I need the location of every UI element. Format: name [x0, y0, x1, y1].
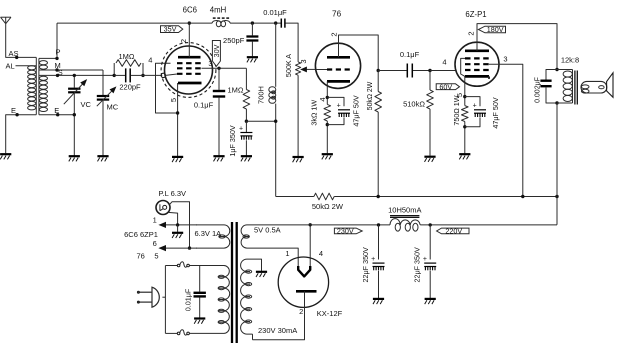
KX-12F plate wire pin 2	[253, 291, 305, 339]
speaker	[581, 73, 613, 98]
6Z-P1 screen wire pin 3	[489, 55, 523, 197]
capacitor 0.1uF coupling	[378, 50, 430, 78]
svg-text:P: P	[56, 48, 61, 57]
svg-text:4mH: 4mH	[210, 6, 226, 15]
tube V2 76 triode	[315, 43, 360, 88]
ground line filter	[194, 319, 205, 324]
output transformer 12k:8	[557, 56, 579, 105]
rectifier tube V4 KX-12F	[278, 257, 328, 307]
ground heater	[172, 225, 183, 238]
capacitor 0.002uF tone	[534, 68, 558, 105]
svg-text:700H: 700H	[257, 86, 266, 104]
svg-text:+: +	[239, 125, 243, 132]
heater line pin 6	[153, 239, 197, 251]
svg-text:P.L 6.3V: P.L 6.3V	[159, 189, 187, 198]
svg-text:5: 5	[169, 98, 178, 102]
svg-text:0.1μF: 0.1μF	[194, 101, 214, 110]
antenna coil primary winding	[28, 57, 37, 114]
svg-text:6: 6	[153, 239, 157, 248]
svg-text:10H50mA: 10H50mA	[388, 205, 421, 214]
heater line pin 1	[153, 216, 197, 228]
svg-text:2: 2	[299, 307, 303, 316]
ground 230V winding	[253, 259, 268, 277]
capacitor 47uF 50V cathode	[327, 95, 360, 127]
6C6 suppressor return wire	[156, 63, 178, 113]
svg-text:4: 4	[319, 249, 323, 258]
label 76 5	[137, 251, 159, 260]
svg-text:1MΩ: 1MΩ	[118, 52, 134, 61]
svg-text:2: 2	[467, 31, 476, 35]
76 cathode wire pin 4	[318, 81, 329, 104]
svg-text:3: 3	[208, 61, 212, 68]
capacitor 0.01uF line filter	[184, 266, 206, 318]
capacitor 1uF 350V	[228, 121, 253, 156]
svg-text:M: M	[55, 61, 61, 70]
svg-text:1MΩ: 1MΩ	[227, 86, 243, 95]
resistor R1 1M grid leak	[113, 52, 145, 77]
transformer core	[232, 222, 237, 343]
6C6 screen wire pin 3	[202, 61, 247, 68]
svg-text:50kΩ 2W: 50kΩ 2W	[312, 202, 344, 211]
label 6C6 6ZP1	[124, 230, 158, 239]
svg-text:180V: 180V	[487, 25, 504, 34]
tag 30V	[212, 41, 221, 67]
wire 5V bottom to pin 1	[253, 248, 299, 267]
node P	[39, 23, 61, 60]
ground E left	[0, 154, 11, 159]
inductor 4mH RF choke	[210, 6, 230, 27]
svg-text:4: 4	[318, 97, 327, 101]
6Z-P1 cathode wire pin 5	[455, 76, 466, 105]
76 grid pin 3 label	[299, 59, 308, 63]
svg-text:AL: AL	[6, 62, 15, 71]
ground 250pF	[247, 57, 258, 62]
wire B+ unfiltered	[253, 223, 391, 226]
svg-text:4: 4	[442, 58, 446, 67]
svg-text:E: E	[54, 106, 59, 115]
svg-text:30V: 30V	[212, 44, 221, 57]
svg-text:VC: VC	[81, 100, 92, 109]
node AS	[9, 49, 19, 59]
capacitor C4 0.01uF coupling	[263, 8, 287, 28]
label 76	[332, 10, 342, 19]
svg-text:0.002μF: 0.002μF	[534, 77, 541, 103]
AC plug	[137, 287, 165, 307]
svg-text:5: 5	[154, 251, 158, 260]
svg-text:230V: 230V	[337, 227, 354, 236]
resistor 750 1W cathode	[452, 95, 468, 153]
resistor 510k grid	[403, 69, 433, 156]
trimmer capacitor MC	[97, 70, 119, 156]
ground pot	[293, 157, 304, 162]
ground 6Z-P1 cathode	[459, 154, 470, 159]
svg-text:220pF: 220pF	[119, 83, 141, 92]
tube V1 6C6 pentode	[161, 43, 216, 98]
6Z-P1 plate wire pin 2	[467, 24, 558, 70]
ground MC	[97, 156, 108, 161]
wire OPT bottom to rail	[556, 103, 558, 225]
6C6 plate wire pin 2	[179, 21, 191, 57]
svg-text:3: 3	[503, 55, 507, 64]
svg-text:+: +	[337, 103, 341, 110]
tag 230V	[334, 227, 362, 236]
potentiometer 500K A volume	[284, 54, 316, 157]
svg-text:E: E	[11, 106, 16, 115]
tube V3 6Z-P1 output pentode	[455, 42, 499, 86]
svg-text:510kΩ: 510kΩ	[403, 100, 425, 109]
svg-text:+: +	[473, 103, 477, 110]
svg-text:6Z-P1: 6Z-P1	[465, 10, 486, 19]
svg-text:50kΩ 2W: 50kΩ 2W	[367, 81, 374, 110]
svg-text:S: S	[58, 70, 63, 77]
svg-text:1μF 350V: 1μF 350V	[228, 125, 237, 157]
ground VC	[69, 156, 80, 161]
transformer 230V 30mA winding	[241, 259, 298, 335]
wire top rail mid	[230, 22, 281, 24]
svg-text:KX-12F: KX-12F	[317, 309, 343, 318]
tag 60V	[436, 82, 459, 91]
wire B+ rail	[276, 193, 559, 200]
ground 22uF input	[373, 299, 384, 304]
power switch top	[165, 262, 206, 267]
svg-text:22μF 350V: 22μF 350V	[361, 247, 370, 283]
wire 700H bottom to 1uF	[246, 120, 277, 123]
wire B+ filtered	[420, 223, 557, 226]
svg-text:76: 76	[137, 251, 145, 260]
svg-text:2: 2	[179, 39, 188, 43]
pilot lamp P.L 6.3V	[156, 189, 186, 214]
svg-text:4: 4	[148, 56, 152, 65]
svg-text:47μF 50V: 47μF 50V	[491, 97, 500, 129]
svg-text:1: 1	[285, 249, 289, 258]
wire grid to 6C6	[143, 74, 161, 76]
wire top rail left	[57, 22, 212, 24]
svg-text:76: 76	[332, 10, 342, 19]
ground 1uF	[241, 156, 252, 161]
inductor 700H plate choke	[257, 23, 276, 196]
wire antenna to AS	[6, 24, 37, 58]
tag 180V	[478, 25, 505, 34]
svg-text:0.01μF: 0.01μF	[263, 8, 287, 17]
svg-text:0.01μF: 0.01μF	[184, 288, 193, 311]
svg-text:500K A: 500K A	[284, 54, 293, 77]
svg-text:+: +	[423, 256, 427, 263]
svg-text:60V: 60V	[439, 82, 452, 91]
ground 6C6 cathode	[172, 157, 183, 162]
wire lamp to heater line 1	[168, 212, 178, 225]
svg-text:5V 0.5A: 5V 0.5A	[254, 225, 281, 234]
node M	[39, 61, 103, 72]
label KX-12F	[317, 309, 343, 318]
ground 510k	[424, 157, 435, 162]
capacitor C1 220pF	[114, 68, 143, 91]
transformer 5V 0.5A winding	[241, 225, 281, 248]
svg-text:1: 1	[153, 216, 157, 225]
ground 22uF output	[425, 299, 436, 304]
svg-text:6C6 6ZP1: 6C6 6ZP1	[124, 230, 158, 239]
transformer 110V primary winding	[206, 266, 230, 334]
svg-text:AS: AS	[9, 49, 19, 58]
wire lamp to heater line 6	[170, 202, 192, 250]
resistor 50k 2W dropper label	[312, 202, 344, 211]
svg-text:230V 30mA: 230V 30mA	[258, 326, 297, 335]
svg-text:22μF 350V: 22μF 350V	[413, 247, 422, 283]
capacitor 250pF	[223, 21, 258, 56]
antenna	[1, 17, 12, 24]
tag 35V	[161, 25, 183, 34]
wire 230V winding bottom	[252, 334, 254, 340]
power switch bottom	[165, 330, 206, 335]
wire to 6Z-P1 grid	[430, 58, 456, 71]
antenna coil secondary winding	[39, 58, 48, 114]
svg-text:+: +	[371, 256, 375, 263]
resistor 3k 1W cathode	[310, 100, 331, 154]
resistor 1M screen	[227, 68, 249, 123]
svg-text:35V: 35V	[164, 25, 177, 34]
node S	[39, 70, 114, 77]
filter choke 10H 50mA	[388, 205, 421, 231]
svg-text:6.3V 1A: 6.3V 1A	[195, 229, 222, 238]
resistor 50k 2W plate load	[367, 69, 382, 197]
76 plate wire pin 2	[329, 32, 378, 70]
svg-text:3: 3	[299, 59, 308, 63]
svg-text:MC: MC	[107, 103, 119, 112]
label 6Z-P1	[465, 10, 486, 19]
node E left	[6, 106, 37, 154]
label 6C6	[183, 6, 197, 15]
variable capacitor VC	[64, 74, 92, 156]
svg-text:3kΩ 1W: 3kΩ 1W	[310, 100, 319, 126]
6C6 cathode wire pin 5	[169, 83, 179, 156]
capacitor 22uF 350V output	[413, 225, 437, 298]
transformer 6.3V 1A winding	[195, 225, 230, 248]
ground 0.1uF screen	[213, 156, 224, 161]
svg-text:250pF: 250pF	[223, 36, 245, 45]
wire plug tee	[164, 266, 166, 334]
svg-text:47μF 50V: 47μF 50V	[352, 95, 361, 127]
svg-text:6C6: 6C6	[183, 6, 197, 15]
svg-text:750Ω 1W: 750Ω 1W	[452, 95, 461, 125]
capacitor 47uF 50V cathode 6ZP1	[465, 97, 500, 129]
svg-text:12k:8: 12k:8	[561, 56, 579, 65]
svg-text:220V: 220V	[445, 227, 462, 236]
svg-text:0.1μF: 0.1μF	[400, 50, 420, 59]
capacitor 22uF 350V input	[361, 225, 385, 298]
capacitor 0.1uF screen bypass	[194, 67, 225, 156]
6C6 grid terminal pin 4	[148, 56, 165, 78]
wire top rail to pot	[286, 23, 299, 62]
tag 220V	[437, 227, 469, 236]
ground 76 cathode	[322, 154, 333, 159]
wire B+ to pin 4	[309, 223, 324, 267]
svg-text:2: 2	[329, 32, 338, 36]
node E right	[39, 106, 74, 117]
node AL	[6, 62, 37, 71]
